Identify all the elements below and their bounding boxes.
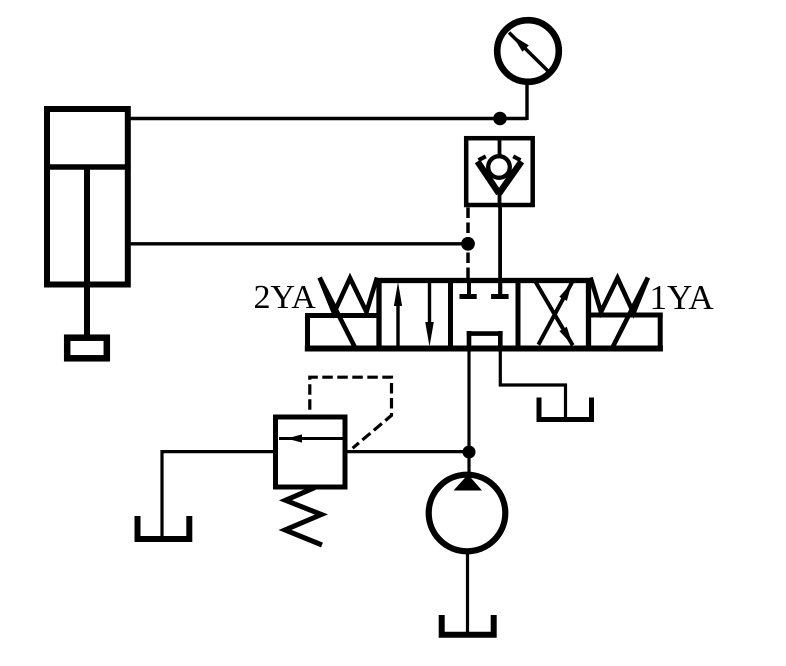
svg-text:2YA: 2YA bbox=[254, 279, 317, 316]
svg-text:1YA: 1YA bbox=[650, 278, 715, 317]
